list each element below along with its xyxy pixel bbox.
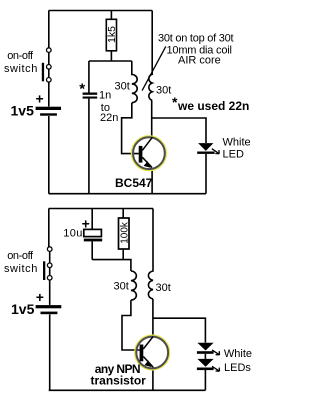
wire switch to battery circuit 1 <box>48 82 50 106</box>
wire L3 to base of Q2 <box>122 300 140 350</box>
wire collector node to LEDs <box>153 318 206 342</box>
inductor L2 feedback winding 30t <box>149 11 152 101</box>
svg-text:AIR core: AIR core <box>178 55 221 67</box>
svg-text:switch: switch <box>4 263 38 275</box>
wire battery to bottom rail circuit 1 <box>48 116 50 194</box>
wire switch lower segment circuit 2 <box>49 268 51 276</box>
wire left rail to switch circuit 1 <box>48 11 50 48</box>
svg-text:1n: 1n <box>99 90 111 102</box>
svg-text:White: White <box>223 136 251 148</box>
capacitor C2 negative plate <box>84 239 102 242</box>
inductor L4 feedback winding 30t <box>148 209 153 299</box>
inductor L3 primary winding 30t <box>131 271 136 300</box>
svg-text:on-off: on-off <box>7 250 34 262</box>
svg-text:30t: 30t <box>115 81 130 93</box>
LED D2 triangle <box>197 343 213 351</box>
switch S1 actuator bar <box>42 63 44 82</box>
wire L1 to base of Q1 <box>122 103 139 154</box>
capacitor C2 bottom lead <box>91 241 93 259</box>
emitter wire Q2 <box>152 367 154 391</box>
switch S2 actuator bar <box>43 261 45 280</box>
resistor R1 lead bottom <box>110 51 112 61</box>
svg-text:transistor: transistor <box>91 374 147 388</box>
capacitor C1 top lead <box>88 61 90 93</box>
transistor Q1 body circle <box>133 137 165 169</box>
svg-text:on-off: on-off <box>7 50 34 62</box>
svg-text:we used 22n: we used 22n <box>177 99 249 113</box>
emitter wire Q1 <box>151 168 153 194</box>
svg-text:30t: 30t <box>114 281 129 293</box>
svg-text:100k: 100k <box>120 221 131 244</box>
resistor R2 lead bottom <box>122 249 124 260</box>
LED D3 light arrow <box>212 366 220 371</box>
svg-text:30t on top of 30t: 30t on top of 30t <box>158 32 233 44</box>
wire switch lower segment circuit 1 <box>48 69 50 77</box>
wire L4 to collector of Q2 <box>152 299 154 336</box>
svg-text:10u: 10u <box>63 227 83 239</box>
LED D3 cathode bar <box>197 368 214 371</box>
transistor Q2 body circle <box>136 337 168 369</box>
LED D2 light arrow <box>212 350 220 355</box>
battery B1 positive plate <box>36 107 61 110</box>
transistor Q1 collector stroke <box>142 137 152 150</box>
battery B1 negative plate <box>40 113 57 115</box>
svg-text:White: White <box>224 348 252 360</box>
svg-text:+: + <box>36 289 44 305</box>
resistor R2 body <box>119 218 130 249</box>
LED D2 cathode bar <box>197 351 214 354</box>
svg-text:+: + <box>82 216 90 232</box>
svg-text:30t: 30t <box>156 282 171 294</box>
svg-text:22n: 22n <box>100 112 118 124</box>
LED D1 light arrow <box>212 149 219 154</box>
svg-text:switch: switch <box>4 63 38 75</box>
switch S2 contacts <box>47 247 52 280</box>
wire bottom rail circuit 1 <box>49 193 206 195</box>
wire switch middle segment circuit 1 <box>48 52 50 64</box>
transistor Q1 base bar <box>139 146 143 163</box>
LED D1 cathode bar <box>197 152 214 154</box>
wire L2 to collector of Q1 <box>151 100 153 136</box>
transistor Q2 emitter stroke <box>143 357 152 367</box>
resistor R1 body <box>106 19 116 51</box>
battery B2 negative plate <box>41 312 58 315</box>
transistor Q1 emitter arrowhead <box>144 161 151 168</box>
svg-text:+: + <box>36 91 44 107</box>
svg-text:*: * <box>79 81 85 98</box>
wire top rail circuit 2 <box>49 208 153 210</box>
switch S1 contacts <box>47 48 52 82</box>
transistor Q2 collector stroke <box>143 337 153 350</box>
transistor Q1 emitter stroke <box>142 157 152 167</box>
battery B2 positive plate <box>36 305 62 308</box>
wire between LED D2 and D3 <box>204 354 206 359</box>
wire battery to bottom rail circuit 2 <box>49 314 51 390</box>
svg-text:1v5: 1v5 <box>11 102 35 118</box>
svg-text:1v5: 1v5 <box>11 301 35 317</box>
transistor Q2 emitter arrowhead <box>144 360 151 367</box>
transistor Q2 base bar <box>140 345 144 362</box>
svg-text:BC547: BC547 <box>115 176 153 190</box>
wire junction node circuit 1 <box>89 60 132 62</box>
transistor Q1 yellow halo <box>132 137 165 170</box>
inductor L1 primary winding 30t <box>132 61 137 103</box>
wire left rail to switch circuit 2 <box>48 209 50 247</box>
LED D3 cathode wire <box>204 370 206 390</box>
svg-text:30t: 30t <box>156 85 171 97</box>
wire junction node circuit 2 <box>92 260 131 271</box>
capacitor C1 bottom lead <box>88 99 90 194</box>
wire top rail circuit 1 <box>49 10 153 12</box>
wire switch to battery circuit 2 <box>49 280 51 305</box>
capacitor C2 positive plate box <box>84 229 102 236</box>
wire switch middle segment circuit 2 <box>49 251 51 263</box>
wire bottom rail circuit 2 <box>49 389 206 391</box>
transistor Q2 yellow halo <box>136 336 169 369</box>
svg-text:1k5: 1k5 <box>106 26 118 43</box>
LED D1 cathode wire <box>205 154 207 194</box>
resistor R1 lead top <box>110 11 112 20</box>
leader line coil annotation <box>142 46 166 90</box>
resistor R2 lead top <box>122 209 124 219</box>
svg-text:LEDs: LEDs <box>224 362 251 374</box>
capacitor C1 plates <box>83 93 98 95</box>
wire collector node to LED D1 <box>152 118 206 143</box>
LED D3 triangle <box>197 359 213 367</box>
LED D1 triangle <box>198 143 213 151</box>
svg-text:LED: LED <box>223 149 244 161</box>
capacitor C2 top lead <box>91 209 93 230</box>
